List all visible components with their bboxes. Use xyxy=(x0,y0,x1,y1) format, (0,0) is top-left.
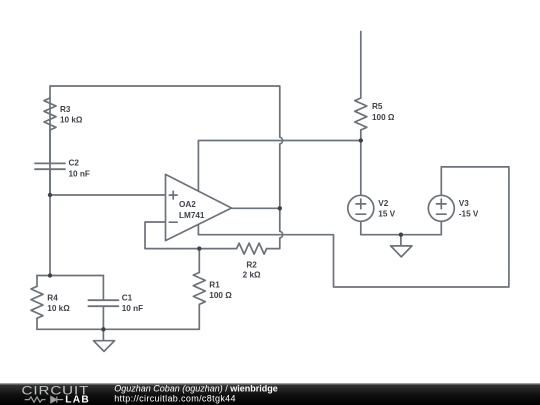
op-amp plus input marker xyxy=(169,191,177,199)
op-amp OA2 LM741 triangle xyxy=(166,174,232,240)
svg-text:R5: R5 xyxy=(372,102,383,111)
logo squiggle: wire, resistor, diode xyxy=(25,397,64,403)
node dot R1/R2/inverting junction xyxy=(197,246,201,250)
svg-text:10 nF: 10 nF xyxy=(69,169,90,178)
svg-text:10 kΩ: 10 kΩ xyxy=(47,304,70,313)
wire R4/C1 top net xyxy=(37,275,103,277)
wire V3 bottom lead xyxy=(440,221,442,234)
resistor R3 xyxy=(44,98,56,163)
svg-text:R2: R2 xyxy=(246,260,257,269)
svg-text:R3: R3 xyxy=(60,105,71,114)
ground GND1 below C1 xyxy=(94,329,115,351)
wire op-amp V- pin down and right, loop to V3 top xyxy=(198,167,509,287)
node dot R5/V2 junction xyxy=(359,138,363,142)
svg-text:R1: R1 xyxy=(209,281,220,290)
voltage source V3 xyxy=(428,195,454,221)
footer black bar xyxy=(0,383,540,405)
voltage source V2 xyxy=(348,195,374,221)
svg-text:Oguzhan Coban (oguzhan) / wien: Oguzhan Coban (oguzhan) / wienbridge xyxy=(114,384,278,394)
wire top-left loop from R3 top to op-amp output column (with hops at crossings) xyxy=(50,86,283,249)
wire V3 top lead xyxy=(440,167,442,195)
node dot R4/C1 junction xyxy=(48,273,52,277)
wire bottom net R4 to R1 xyxy=(37,328,199,330)
wire op-amp output xyxy=(232,207,280,209)
resistor R1 xyxy=(193,249,205,330)
svg-text:http://circuitlab.com/c8tgk44: http://circuitlab.com/c8tgk44 xyxy=(114,393,236,403)
svg-text:LAB: LAB xyxy=(65,395,90,405)
wire V2/V3 bottom net xyxy=(361,234,442,236)
svg-text:C1: C1 xyxy=(122,294,133,303)
node dot C2/+input junction xyxy=(48,193,52,197)
resistor R4 xyxy=(31,276,43,330)
wire inverting input loop xyxy=(145,222,199,249)
svg-text:2 kΩ: 2 kΩ xyxy=(243,271,261,280)
wire V2 bottom to ground net xyxy=(360,221,362,234)
svg-text:100 Ω: 100 Ω xyxy=(372,113,395,122)
wire noninverting input xyxy=(50,194,166,196)
svg-text:R4: R4 xyxy=(47,293,58,302)
wire left column down to R4/C1 net xyxy=(49,195,51,276)
svg-text:100 Ω: 100 Ω xyxy=(209,291,232,300)
svg-text:OA2: OA2 xyxy=(179,200,196,209)
footer credit text xyxy=(114,384,278,404)
svg-text:V2: V2 xyxy=(378,199,388,208)
node dot ground net junction xyxy=(399,233,403,237)
svg-text:C2: C2 xyxy=(69,159,80,168)
node dot op-amp output junction xyxy=(278,206,282,210)
svg-text:V3: V3 xyxy=(459,199,469,208)
op-amp minus input marker xyxy=(169,221,177,223)
svg-text:LM741: LM741 xyxy=(179,211,205,220)
resistor R2 xyxy=(199,243,266,254)
resistor R5 xyxy=(355,32,367,141)
svg-text:10 kΩ: 10 kΩ xyxy=(60,115,83,124)
node dot C1/ground junction xyxy=(101,327,105,331)
ground GND2 below sources xyxy=(391,235,412,257)
svg-text:10 nF: 10 nF xyxy=(122,304,143,313)
CircuitLab logo wordmark xyxy=(22,384,91,405)
svg-text:15 V: 15 V xyxy=(378,210,395,219)
wire op-amp V+ pin up and right to R5 node xyxy=(198,141,360,191)
capacitor C1 xyxy=(88,276,118,330)
svg-text:-15 V: -15 V xyxy=(459,210,479,219)
capacitor C2 xyxy=(35,163,65,195)
wire R5 node down to V2 xyxy=(360,141,362,196)
